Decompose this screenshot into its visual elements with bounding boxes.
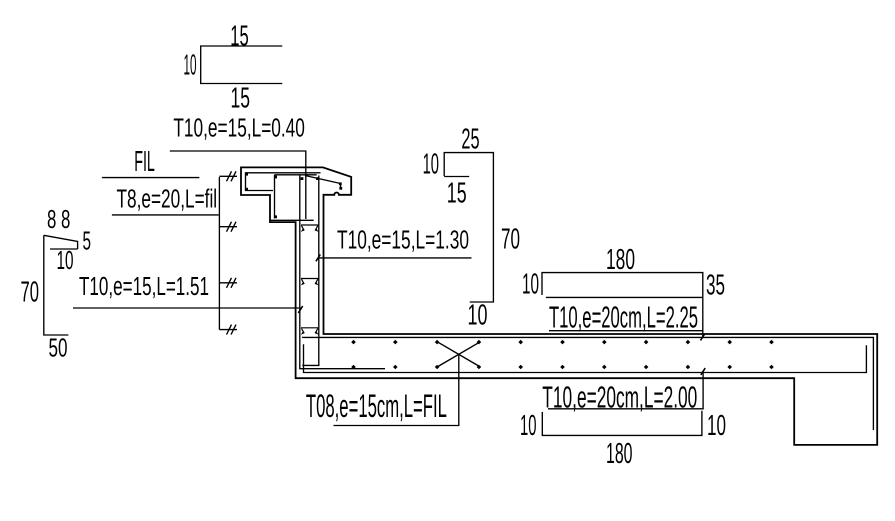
svg-text:T08,e=15cm,L=FIL: T08,e=15cm,L=FIL [306, 388, 447, 424]
svg-text:5: 5 [83, 226, 92, 256]
svg-text:10: 10 [423, 149, 439, 181]
svg-text:10: 10 [468, 300, 488, 332]
svg-text:35: 35 [706, 270, 725, 302]
svg-text:70: 70 [501, 224, 520, 256]
svg-text:10: 10 [522, 269, 539, 301]
svg-text:70: 70 [21, 277, 40, 309]
svg-text:15: 15 [230, 21, 249, 53]
svg-text:15: 15 [231, 83, 251, 115]
svg-text:50: 50 [49, 333, 68, 363]
svg-text:180: 180 [606, 244, 635, 276]
svg-text:10: 10 [707, 410, 726, 442]
svg-text:15: 15 [447, 178, 467, 210]
svg-text:10: 10 [520, 410, 537, 442]
svg-text:25: 25 [461, 124, 479, 156]
svg-text:T10,e=20cm,L=2.00: T10,e=20cm,L=2.00 [542, 380, 697, 415]
svg-text:8 8: 8 8 [47, 204, 70, 234]
svg-text:FIL: FIL [134, 146, 155, 178]
svg-text:T10,e=15,L=0.40: T10,e=15,L=0.40 [173, 114, 305, 142]
svg-text:T10,e=15,L=1.30: T10,e=15,L=1.30 [337, 227, 469, 255]
svg-text:T8,e=20,L=fil: T8,e=20,L=fil [117, 185, 218, 213]
svg-text:T10,e=20cm,L=2.25: T10,e=20cm,L=2.25 [549, 300, 698, 335]
svg-text:180: 180 [606, 438, 633, 470]
svg-text:10: 10 [57, 245, 74, 275]
svg-text:T10,e=15,L=1.51: T10,e=15,L=1.51 [79, 273, 209, 301]
svg-text:10: 10 [184, 50, 197, 82]
